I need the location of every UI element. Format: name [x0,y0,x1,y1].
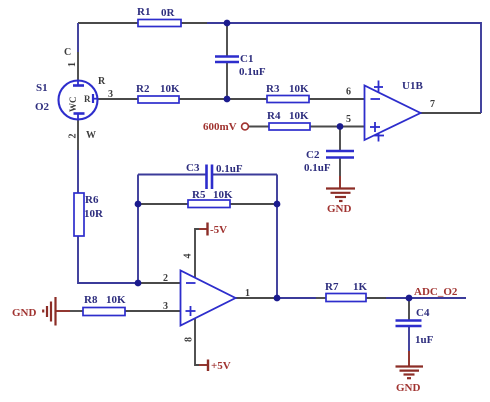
svg-text:R6: R6 [85,194,99,206]
svg-text:0.1uF: 0.1uF [239,66,266,78]
svg-text:10K: 10K [160,83,180,95]
svg-text:GND: GND [396,382,421,394]
svg-text:3: 3 [163,301,168,312]
svg-text:4: 4 [183,254,194,259]
svg-text:1K: 1K [353,281,368,293]
svg-text:10R: 10R [84,208,104,220]
svg-text:R5: R5 [192,189,206,201]
svg-text:R: R [84,94,91,104]
svg-text:C3: C3 [186,162,200,174]
svg-text:7: 7 [430,99,435,110]
svg-text:1uF: 1uF [415,334,434,346]
svg-text:C: C [64,47,71,58]
svg-text:R7: R7 [325,281,339,293]
svg-text:0R: 0R [161,7,176,19]
svg-text:10K: 10K [289,110,309,122]
svg-text:R1: R1 [137,6,150,18]
svg-text:W: W [86,130,96,141]
svg-text:WC: WC [68,97,78,113]
svg-text:1: 1 [245,288,250,299]
svg-text:0.1uF: 0.1uF [304,162,331,174]
svg-text:R2: R2 [136,83,150,95]
svg-text:6: 6 [346,87,351,98]
svg-text:R: R [98,76,106,87]
svg-text:ADC_O2: ADC_O2 [414,286,458,298]
svg-text:GND: GND [12,307,37,319]
svg-text:600mV: 600mV [203,121,237,133]
svg-text:GND: GND [327,203,352,215]
svg-text:O2: O2 [35,101,50,113]
svg-text:0.1uF: 0.1uF [216,163,243,175]
svg-text:10K: 10K [106,294,126,306]
svg-text:R3: R3 [266,83,280,95]
svg-text:C4: C4 [416,307,430,319]
svg-text:2: 2 [68,134,79,139]
svg-text:S1: S1 [36,82,48,94]
svg-text:C1: C1 [240,53,253,65]
svg-text:3: 3 [108,89,113,100]
svg-text:5: 5 [346,114,351,125]
svg-text:R4: R4 [267,110,281,122]
svg-text:10K: 10K [213,189,233,201]
svg-text:+5V: +5V [211,360,231,372]
svg-text:1: 1 [67,62,78,67]
svg-text:R8: R8 [84,294,98,306]
svg-text:U1B: U1B [402,80,423,92]
svg-text:C2: C2 [306,149,320,161]
svg-text:8: 8 [184,337,195,342]
svg-text:-5V: -5V [210,224,227,236]
svg-text:2: 2 [163,273,168,284]
svg-text:10K: 10K [289,83,309,95]
